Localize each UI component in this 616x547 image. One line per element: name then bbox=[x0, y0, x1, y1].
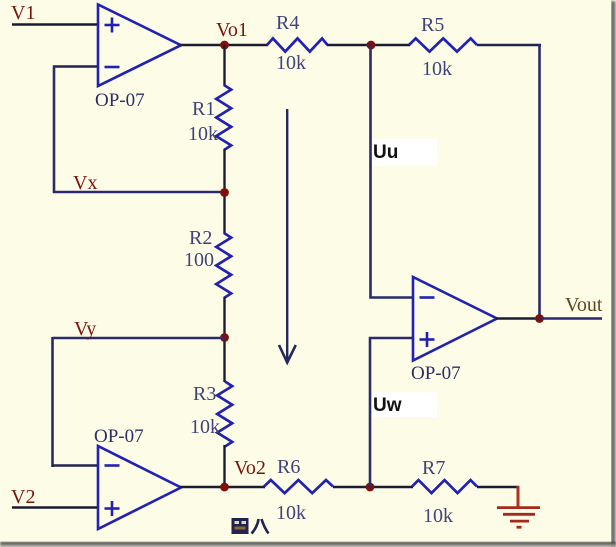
resistor R1 bbox=[216, 85, 231, 150]
value 10k of R6 bbox=[276, 502, 306, 524]
wire R5 to feedback corner bbox=[477, 44, 541, 47]
label OP-07 for U1 bbox=[95, 90, 145, 111]
op-amp U2 bbox=[98, 446, 181, 529]
caption 圖八 (figure eight) bbox=[232, 518, 269, 534]
node Vout bbox=[565, 294, 603, 316]
resistor R4 bbox=[267, 38, 328, 51]
wire R2 to Vy junction bbox=[223, 297, 225, 382]
value 10k of R3 bbox=[190, 416, 220, 438]
label R6 bbox=[277, 456, 300, 478]
svg-text:R6: R6 bbox=[277, 456, 300, 478]
label R4 bbox=[276, 12, 299, 34]
junction Vx node bbox=[220, 188, 229, 197]
current arrow bbox=[279, 109, 296, 363]
value 10k of R7 bbox=[423, 505, 453, 527]
wire Vx feedback vertical bbox=[53, 66, 56, 194]
value 10k of R5 bbox=[422, 58, 452, 80]
svg-text:Uu: Uu bbox=[373, 142, 398, 163]
svg-text:OP-07: OP-07 bbox=[95, 90, 145, 111]
svg-text:10k: 10k bbox=[422, 58, 452, 80]
label R5 bbox=[421, 14, 444, 36]
label R3 bbox=[193, 383, 216, 405]
node Uu label box bbox=[372, 139, 437, 166]
label R2 bbox=[189, 227, 212, 249]
wire R7 to ground bbox=[477, 486, 519, 489]
wire Vout bbox=[540, 317, 603, 320]
label OP-07 for U2 bbox=[94, 426, 144, 447]
value 10k of R1 bbox=[188, 123, 218, 145]
node Vo2 bbox=[234, 457, 266, 479]
svg-text:Vy: Vy bbox=[74, 318, 96, 340]
junction Vo2 bbox=[220, 483, 229, 492]
node Vy bbox=[74, 318, 96, 340]
junction Vout node bbox=[535, 314, 544, 323]
svg-text:100: 100 bbox=[184, 249, 214, 271]
node Uw label box bbox=[372, 392, 437, 417]
svg-text:10k: 10k bbox=[423, 505, 453, 527]
label R7 bbox=[422, 457, 445, 479]
wire Uu vertical from top node bbox=[371, 44, 414, 298]
wire U1 minus input stub bbox=[53, 65, 97, 67]
wire Vo1 down to R1 bbox=[223, 45, 225, 86]
svg-text:R1: R1 bbox=[192, 98, 215, 120]
node Uu bbox=[373, 142, 398, 163]
resistor R3 bbox=[217, 382, 232, 447]
wire Vx horizontal bbox=[53, 191, 226, 194]
resistor R7 bbox=[412, 480, 477, 493]
wire U3 output bbox=[496, 317, 540, 320]
op-amp U1 bbox=[98, 5, 181, 87]
wire Vy vertical down bbox=[51, 337, 54, 467]
resistor R5 bbox=[409, 38, 477, 51]
svg-text:10k: 10k bbox=[276, 52, 306, 74]
svg-text:R7: R7 bbox=[422, 457, 445, 479]
wire U2 minus input stub bbox=[52, 464, 97, 466]
ground bbox=[497, 486, 540, 527]
svg-text:Vo1: Vo1 bbox=[216, 19, 248, 41]
wire V1 input bbox=[12, 23, 97, 25]
node Uw bbox=[373, 395, 402, 416]
svg-text:10k: 10k bbox=[188, 123, 218, 145]
svg-text:R4: R4 bbox=[276, 12, 299, 34]
svg-text:Uw: Uw bbox=[373, 395, 402, 416]
svg-text:10k: 10k bbox=[190, 416, 220, 438]
wire R3 to Vo2 bbox=[223, 445, 225, 488]
svg-text:V2: V2 bbox=[11, 486, 35, 508]
wire feedback vertical down to output node bbox=[538, 44, 541, 319]
junction bottom middle node bbox=[366, 483, 375, 492]
svg-text:R2: R2 bbox=[189, 227, 212, 249]
junction Vy node bbox=[220, 333, 229, 342]
wire R6 to R7 bbox=[333, 486, 413, 489]
node Vo1 bbox=[216, 19, 248, 41]
value 100 of R2 bbox=[184, 249, 214, 271]
border shadow bottom bbox=[0, 542, 616, 547]
wire Uw vertical to bottom node bbox=[370, 338, 413, 487]
junction Vo1 bbox=[220, 41, 229, 50]
resistor R6 bbox=[264, 480, 333, 493]
label R1 bbox=[192, 98, 215, 120]
value 10k of R4 bbox=[276, 52, 306, 74]
svg-text:Vx: Vx bbox=[73, 172, 97, 194]
node Vx bbox=[73, 172, 97, 194]
resistor R2 bbox=[216, 233, 231, 298]
svg-text:R3: R3 bbox=[193, 383, 216, 405]
wire Vy horizontal bbox=[53, 337, 227, 340]
svg-text:Vout: Vout bbox=[565, 294, 603, 316]
label OP-07 for U3 bbox=[411, 363, 461, 384]
svg-text:OP-07: OP-07 bbox=[94, 426, 144, 447]
border shadow right bbox=[611, 1, 616, 547]
op-amp U3 bbox=[413, 277, 497, 361]
svg-text:V1: V1 bbox=[11, 2, 35, 24]
junction top middle node bbox=[367, 41, 376, 50]
wire U1 output to Vo1 bbox=[180, 44, 268, 47]
svg-text:10k: 10k bbox=[276, 502, 306, 524]
node V1 bbox=[11, 2, 35, 24]
wire R1 to Vx junction bbox=[223, 149, 225, 234]
node V2 bbox=[11, 486, 35, 508]
svg-text:R5: R5 bbox=[421, 14, 444, 36]
wire U2 output to Vo2 bbox=[180, 486, 265, 489]
wire R4 to R5 bbox=[327, 44, 410, 47]
svg-text:OP-07: OP-07 bbox=[411, 363, 461, 384]
svg-text:Vo2: Vo2 bbox=[234, 457, 266, 479]
wire V2 input bbox=[12, 506, 97, 508]
